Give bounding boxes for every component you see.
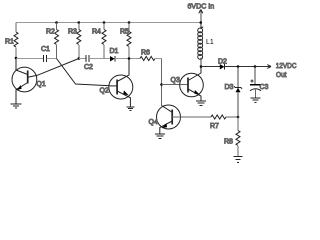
diode D1	[110, 48, 141, 62]
svg-text:6VDC In: 6VDC In	[188, 2, 215, 11]
wire top rail	[16, 22, 201, 24]
svg-text:D2: D2	[218, 59, 227, 66]
ground (below R8)	[234, 157, 243, 163]
node C (D1/R5/Q2 collector/R6 junction)	[128, 57, 131, 60]
resistor R4	[92, 21, 106, 58]
wire node B to C2	[79, 58, 86, 60]
node D (Q3 base tap)	[160, 83, 163, 86]
svg-text:R2: R2	[46, 29, 55, 36]
resistor R7	[210, 115, 238, 130]
svg-text:D3: D3	[225, 84, 234, 91]
svg-text:Q4: Q4	[149, 119, 158, 126]
capacitor C1	[41, 46, 57, 62]
node H (D2/D3 junction)	[237, 65, 240, 68]
svg-text:L1: L1	[206, 39, 214, 46]
transistor Q2	[100, 59, 133, 107]
capacitor C2	[84, 55, 110, 71]
ground (Q4 emitter)	[155, 134, 165, 138]
6VDC In supply arrow	[188, 2, 215, 24]
transistor Q4	[149, 105, 181, 134]
svg-text:R7: R7	[210, 123, 219, 130]
svg-text:R4: R4	[92, 29, 101, 36]
resistor R3	[68, 21, 81, 58]
node I (C3 junction)	[254, 65, 257, 68]
ground (Q3 emitter)	[196, 101, 206, 105]
svg-text:Q3: Q3	[171, 77, 180, 84]
ground (below C3)	[251, 98, 261, 102]
12VDC Out arrow	[267, 61, 297, 79]
svg-text:C3: C3	[260, 84, 269, 91]
inductor L1	[198, 23, 214, 67]
resistor R2	[46, 21, 59, 58]
wire diagonal B: node B to Q1 base	[28, 59, 79, 78]
wire diagonal A: C1/R2 node to Q2 base	[57, 59, 111, 86]
wire to C1	[16, 58, 43, 60]
node G (L1/D2/Q3 collector junction)	[200, 65, 203, 68]
resistor R8	[224, 117, 240, 156]
svg-text:C2: C2	[84, 64, 93, 71]
svg-text:C1: C1	[41, 46, 50, 53]
svg-text:D1: D1	[110, 48, 119, 55]
resistor R5	[120, 21, 131, 58]
ground (Q2 emitter)	[126, 107, 134, 110]
capacitor C3 (polarized)	[250, 67, 269, 98]
svg-text:12VDC: 12VDC	[276, 61, 297, 70]
svg-text:Out: Out	[276, 70, 287, 79]
resistor R1	[5, 23, 18, 59]
wire to D2	[201, 66, 220, 68]
node A (R1/C1/Q1 collector junction)	[15, 57, 18, 60]
node B (R3/C2/Q1 base junction)	[78, 57, 81, 60]
wire Q4 base to R7	[172, 116, 211, 118]
node E (D3/R7/R8 junction)	[237, 116, 240, 119]
svg-text:R1: R1	[5, 39, 14, 46]
transistor Q1	[12, 59, 46, 104]
svg-text:R5: R5	[120, 29, 129, 36]
svg-text:Q1: Q1	[36, 81, 45, 88]
transistor Q3	[171, 67, 204, 101]
wire node D to Q3 base	[162, 84, 189, 86]
svg-text:R8: R8	[224, 139, 233, 146]
resistor R6	[140, 50, 162, 61]
node F (6VDC/L1 junction)	[200, 21, 203, 24]
ground (Q1 emitter)	[11, 104, 22, 108]
wire R6 corner down to Q4 collector	[161, 59, 163, 106]
svg-text:Q2: Q2	[100, 88, 109, 95]
svg-text:R3: R3	[68, 29, 77, 36]
zener diode D3	[225, 67, 243, 118]
svg-text:R6: R6	[141, 50, 150, 57]
diode D2	[218, 59, 271, 70]
